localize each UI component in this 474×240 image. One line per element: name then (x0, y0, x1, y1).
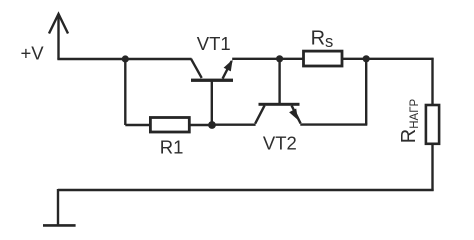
transistor VT1 (191, 59, 233, 123)
wire sense vertical from Rs right node (365, 59, 367, 125)
resistor R1 (150, 118, 189, 133)
wire VT2 base vertical (278, 59, 280, 103)
svg-text:Rs: Rs (311, 27, 334, 51)
wire rail VT1 emitter to Rs (232, 58, 303, 60)
resistor Rs (304, 51, 343, 66)
wire right drop to load (431, 58, 433, 105)
node junction dot at +V rail / R1 branch (122, 55, 129, 62)
wire VT2 emitter to sense vertical (300, 123, 367, 125)
wire ground drop (57, 189, 59, 225)
wire bottom rail (58, 189, 434, 191)
node junction dot Rs right / sense wire (363, 55, 370, 62)
wire to R1 left terminal (125, 124, 149, 126)
+V supply arrow (49, 14, 68, 60)
wire R1 right to base node (191, 124, 213, 126)
wire top rail from +V to VT1 collector (57, 58, 191, 60)
svg-text:VT2: VT2 (263, 132, 297, 153)
svg-text:RНАГР: RНАГР (398, 99, 421, 144)
node junction dot VT1 base / R1 / VT2 collector (208, 121, 216, 129)
svg-text:+V: +V (21, 42, 45, 63)
wire base node to VT2 collector (212, 123, 256, 125)
svg-text:R1: R1 (160, 137, 184, 158)
ground (43, 224, 76, 227)
wire rail Rs right to load corner (343, 58, 434, 60)
node junction dot VT1 emitter / Rs left / VT2 base (276, 55, 283, 62)
wire R1 branch vertical (124, 59, 126, 125)
transistor VT2 (255, 103, 300, 124)
svg-text:VT1: VT1 (197, 33, 231, 54)
wire load bottom to bottom rail (431, 145, 433, 191)
resistor R_NAGR load (426, 105, 439, 144)
